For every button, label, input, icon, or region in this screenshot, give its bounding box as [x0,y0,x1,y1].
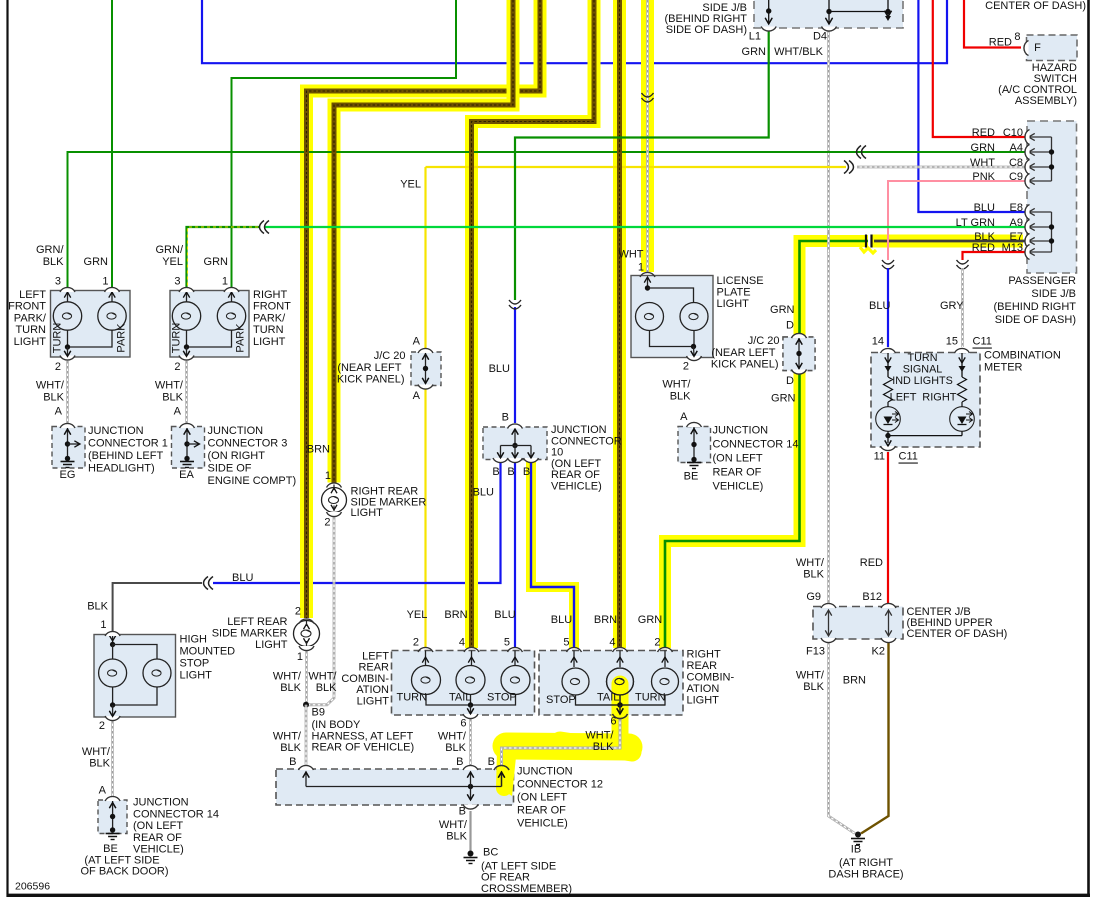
junction connector 3 box [172,427,205,469]
svg-text:WHT: WHT [618,249,643,261]
svg-text:BRN: BRN [594,614,617,626]
svg-text:LIGHT: LIGHT [255,639,288,651]
svg-text:PNK: PNK [972,171,995,183]
splice B9 [303,702,309,708]
svg-text:8: 8 [1014,31,1020,43]
svg-text:VEHICLE): VEHICLE) [517,818,568,830]
re-assert pin arrowheads over cups [64,351,70,357]
wire BLU down to combination meter pin 14 [887,268,889,347]
top J/B internal bus [768,0,770,24]
redraw BRN cores over green/yellow rows at crossings [304,145,309,174]
wire GRY down to combination meter pin 15 [961,268,964,347]
connector break on YEL/WHT row [844,161,849,174]
wire WHT/BLK high mounted stop light pin 2 down [111,721,114,797]
svg-text:A: A [680,411,688,423]
svg-text:(AT LEFT SIDE: (AT LEFT SIDE [481,861,556,873]
svg-text:RED: RED [989,37,1012,49]
junction block: passenger side J/B (right) [1027,121,1077,273]
highlighted wire BRN to right rear side marker pin 1 [334,0,513,483]
svg-text:ASSEMBLY): ASSEMBLY) [1015,95,1077,107]
svg-text:3: 3 [55,276,61,288]
svg-text:IND LIGHTS: IND LIGHTS [892,375,953,387]
svg-text:REAR: REAR [358,662,389,674]
pin connector cups [761,27,776,32]
svg-text:BLK: BLK [803,681,824,693]
svg-text:PLATE: PLATE [717,287,751,299]
right J/B internal arrows group 2 [1051,212,1053,252]
svg-text:GRY: GRY [940,300,964,312]
junction connector 14 (back door) internals + ground BE [112,801,114,829]
svg-text:J/C 20: J/C 20 [748,335,780,347]
page border frame [6,0,8,897]
svg-text:LIGHT: LIGHT [351,507,384,519]
svg-text:COMBIN-: COMBIN- [341,673,389,685]
svg-text:2: 2 [683,361,689,373]
high mounted stop light box [94,635,176,718]
svg-text:STOP: STOP [180,658,210,670]
junction connector 10 box [483,427,547,460]
right front light internals [186,292,188,302]
svg-text:CONNECTOR 14: CONNECTOR 14 [713,439,799,451]
svg-text:WHT/: WHT/ [585,730,614,742]
wire GRN right-front pin1 up/over [232,0,457,287]
svg-text:VEHICLE): VEHICLE) [713,481,764,493]
highlighted wire GRN hazard feed to right rear combination pin 2 (turn) [665,241,868,648]
svg-text:GRN: GRN [84,256,109,268]
svg-text:IB: IB [851,844,861,856]
right front park/turn light box [170,291,249,358]
redraw right rear combination tail elements over highlighter [607,668,634,695]
svg-text:(IN BODY: (IN BODY [312,719,362,731]
svg-text:1: 1 [297,651,303,663]
svg-text:OF REAR: OF REAR [481,872,530,884]
junction connector 12 internals [306,786,502,788]
svg-text:BLU: BLU [232,572,253,584]
wire RED from top to hazard switch F pin 8 [964,0,1021,48]
junction connector 14 (license) internals + ground BE [693,427,695,459]
svg-text:CONNECTOR 12: CONNECTOR 12 [517,779,603,791]
wire RED from top to C10 [933,0,1027,137]
svg-text:WHT/: WHT/ [796,670,825,682]
svg-text:LEFT REAR: LEFT REAR [227,616,287,628]
wire BLU junction connector 10 pin B1 to stop light row [213,462,501,583]
svg-text:10: 10 [551,447,563,459]
svg-text:BLK: BLK [670,391,691,403]
right J/B internal arrows group 1 [1051,137,1053,181]
svg-text:RIGHT: RIGHT [253,289,288,301]
svg-text:BLK: BLK [43,256,64,268]
ground BC [469,811,471,851]
wire WHT/BLK front lights pin2 to junction connector 3 [185,361,188,423]
svg-text:GRN: GRN [770,304,795,316]
svg-text:2: 2 [99,720,105,732]
svg-text:WHT/: WHT/ [662,379,691,391]
svg-text:D4: D4 [813,31,827,43]
wire BLU main horizontal bus y=63 [202,0,947,63]
combination meter box [871,353,980,448]
junction connector 1 box [52,427,85,469]
svg-text:A: A [99,785,107,797]
svg-text:PARK/: PARK/ [14,312,47,324]
svg-text:1: 1 [222,276,228,288]
svg-text:KICK PANEL): KICK PANEL) [337,374,405,386]
svg-text:HIGH: HIGH [180,634,208,646]
svg-text:C8: C8 [1009,157,1023,169]
svg-text:GRN/: GRN/ [156,244,184,256]
hazard switch connector F [1027,35,1078,61]
svg-text:1: 1 [102,276,108,288]
svg-text:206596: 206596 [15,881,50,893]
svg-text:LEFT: LEFT [362,651,389,663]
svg-text:RED: RED [972,127,995,139]
wire BRN center J/B K2 to ground IB [861,642,889,834]
svg-text:TAIL: TAIL [597,692,619,704]
svg-text:REAR OF: REAR OF [133,832,182,844]
svg-text:EG: EG [60,469,76,481]
svg-text:14: 14 [872,336,884,348]
svg-text:2: 2 [55,361,61,373]
svg-text:4: 4 [459,637,465,649]
svg-text:WHT/: WHT/ [439,819,468,831]
svg-text:A: A [413,390,421,402]
left front light internals [67,292,69,302]
svg-text:B: B [507,466,514,478]
svg-text:(ON LEFT: (ON LEFT [517,792,567,804]
svg-text:B12: B12 [862,591,882,603]
svg-text:RIGHT: RIGHT [687,649,722,661]
svg-text:GRN: GRN [204,256,229,268]
svg-text:D: D [786,375,794,387]
svg-text:PARK: PARK [235,323,247,353]
wire WHT/BLK splice B9 to junction connector 12 pin B1 [305,705,308,765]
svg-text:STOP: STOP [546,694,576,706]
svg-text:5: 5 [504,637,510,649]
svg-text:TURN: TURN [52,323,64,354]
svg-text:B: B [488,756,495,768]
svg-text:LICENSE: LICENSE [717,275,764,287]
svg-text:GRN: GRN [971,142,996,154]
redraw WHT core over rows at crossing [646,145,649,174]
svg-text:VEHICLE): VEHICLE) [551,481,602,493]
svg-text:OF BACK DOOR): OF BACK DOOR) [80,866,168,878]
left rear combination light box [392,651,535,716]
wire BLK E7 row (highlighted) [872,235,1023,248]
svg-text:SIDE OF: SIDE OF [208,463,252,475]
svg-text:G9: G9 [806,591,821,603]
combination meter left indicator branch [887,352,889,377]
svg-text:KICK PANEL): KICK PANEL) [711,359,779,371]
svg-text:EA: EA [179,469,194,481]
wire WHT/BLK front lights pin2 to junction connector 1 [66,361,69,423]
svg-text:JUNCTION: JUNCTION [88,425,144,437]
svg-text:6: 6 [610,716,616,728]
svg-text:M13: M13 [1002,242,1023,254]
svg-text:JUNCTION: JUNCTION [517,766,573,778]
J/C 20 box (near left kick panel) #2 [783,337,815,371]
svg-text:BLK: BLK [316,682,337,694]
svg-text:BLK: BLK [280,682,301,694]
junction connector 14 box (license) [678,427,711,463]
svg-text:F: F [1034,42,1041,54]
wire PNK C9 row and down [888,181,1027,260]
J/C 20 #2 internals [798,338,800,369]
svg-text:HARNESS, AT LEFT: HARNESS, AT LEFT [312,730,414,742]
license plate light box [631,276,713,358]
svg-text:LT GRN: LT GRN [956,217,995,229]
redraw PNK over E7 highlight [887,232,889,252]
svg-text:2: 2 [654,637,660,649]
svg-text:WHT/: WHT/ [796,557,825,569]
svg-text:GRN: GRN [742,46,767,58]
svg-text:BRN: BRN [444,609,467,621]
svg-text:1: 1 [638,262,644,274]
svg-text:J/C 20: J/C 20 [374,350,406,362]
svg-text:B: B [492,466,499,478]
svg-text:SIDE MARKER: SIDE MARKER [212,628,288,640]
svg-text:LIGHT: LIGHT [253,336,286,348]
svg-text:BLU: BLU [869,300,890,312]
ground IB [855,832,861,838]
wire BLU down to junction connector 10 pin B [514,307,516,423]
svg-text:4: 4 [609,637,615,649]
svg-text:BLK: BLK [803,569,824,581]
svg-text:CONNECTOR 1: CONNECTOR 1 [88,438,168,450]
wire WHT segment to C8 [857,166,1027,169]
svg-text:MOUNTED: MOUNTED [180,646,236,658]
highlighter blob over right rear combination tail circuit [612,684,629,740]
svg-text:1: 1 [100,619,106,631]
svg-text:SIDE OF DASH): SIDE OF DASH) [995,314,1076,326]
svg-text:GRN: GRN [638,614,663,626]
svg-text:JUNCTION: JUNCTION [551,424,607,436]
svg-text:CONNECTOR 14: CONNECTOR 14 [133,808,219,820]
junction connector 3 internals + ground EA [186,428,188,458]
svg-text:BE: BE [684,471,699,483]
svg-text:WHT/: WHT/ [82,746,111,758]
wire WHT/BLK right rear combination pin6 to junction connector 12 pin B3 [502,719,621,765]
svg-text:PASSENGER: PASSENGER [1008,275,1076,287]
wire BLU junction connector 10 pin B2 to left rear combination pin 5 [514,462,516,648]
connector break on A4 GRN row [857,146,862,159]
svg-text:BLK: BLK [162,392,183,404]
svg-text:WHT/: WHT/ [273,731,302,743]
svg-text:BLU: BLU [473,487,494,499]
svg-text:WHT: WHT [970,157,995,169]
wire LT GRN A9 row [265,226,1027,228]
wire RED combination meter pin 11 to center J/B B12 [887,452,889,603]
svg-text:SIDE J/B: SIDE J/B [1031,288,1076,300]
svg-text:(NEAR LEFT: (NEAR LEFT [337,362,401,374]
svg-text:WHT/: WHT/ [438,731,467,743]
svg-text:REAR OF: REAR OF [713,467,762,479]
svg-text:COMBINATION: COMBINATION [984,350,1061,362]
wire WHT/BLK D4 from top J/B down to center J/B G9 [827,30,830,603]
highlighted wire BLU junction connector 10 pin B3 to right rear combination pin 5 [531,462,574,648]
svg-text:B: B [523,466,530,478]
svg-text:LIGHT: LIGHT [357,695,390,707]
svg-text:TURN: TURN [397,692,428,704]
wire RED M13 row and down [963,252,1028,260]
junction connector 14 box (back door) [98,800,127,834]
svg-text:HEADLIGHT): HEADLIGHT) [88,463,155,475]
junction connector 1 internals + ground EG [67,428,69,458]
svg-text:GRN/: GRN/ [36,244,64,256]
svg-text:2: 2 [413,637,419,649]
svg-text:TURN: TURN [635,692,666,704]
svg-text:2: 2 [174,361,180,373]
svg-text:15: 15 [946,336,958,348]
svg-text:(ON LEFT: (ON LEFT [713,453,763,465]
wire YEL row to C8 [426,166,847,168]
svg-text:CONNECTOR 3: CONNECTOR 3 [208,438,288,450]
svg-text:1: 1 [325,470,331,482]
svg-text:E8: E8 [1010,202,1023,214]
highlighted wire BRN to left rear side marker pin 2 [307,0,541,618]
svg-text:B: B [502,412,509,424]
junction block: passenger side J/B (top) [754,0,903,28]
svg-text:CENTER OF DASH): CENTER OF DASH) [985,0,1086,12]
svg-text:TAIL: TAIL [449,692,471,704]
license plate light internals [647,277,649,288]
svg-text:C9: C9 [1009,171,1023,183]
svg-text:WHT/: WHT/ [36,380,65,392]
svg-text:B: B [289,756,296,768]
svg-text:LIGHT: LIGHT [717,298,750,310]
svg-text:(ON LEFT: (ON LEFT [133,820,183,832]
svg-text:REAR OF VEHICLE): REAR OF VEHICLE) [312,742,415,754]
svg-text:TURN: TURN [15,324,46,336]
svg-text:ENGINE COMPT): ENGINE COMPT) [208,475,297,487]
connector break on WHT license wire [642,93,654,97]
svg-text:FRONT: FRONT [8,301,46,313]
svg-text:BRN: BRN [307,444,330,456]
junction connector 10 internals [514,428,516,446]
svg-text:SIGNAL: SIGNAL [903,364,943,376]
left front park/turn light box [51,291,131,358]
svg-text:(ON RIGHT: (ON RIGHT [208,450,266,462]
svg-text:A: A [55,406,63,418]
svg-text:A: A [174,406,182,418]
connector break on GRN/YEL row [260,221,265,234]
left rear combination light internals [425,651,427,666]
svg-text:LIGHT: LIGHT [14,336,47,348]
right rear side marker light bulb [322,488,347,513]
svg-text:SIDE OF DASH): SIDE OF DASH) [666,24,747,36]
svg-text:YEL: YEL [162,256,183,268]
svg-text:(AT RIGHT: (AT RIGHT [839,857,893,869]
svg-text:JUNCTION: JUNCTION [713,425,769,437]
svg-text:L1: L1 [749,31,761,43]
svg-text:D: D [786,320,794,332]
svg-text:BE: BE [103,843,118,855]
svg-text:WHT/: WHT/ [273,671,302,683]
svg-text:BLK: BLK [446,831,467,843]
svg-text:A9: A9 [1010,217,1023,229]
svg-text:JUNCTION: JUNCTION [208,425,264,437]
svg-text:ATION: ATION [687,683,720,695]
wire GRN A4 row to left-front pin3 [68,152,1028,287]
svg-text:C10: C10 [1003,127,1023,139]
wire WHT/BLK left marker pin1 to splice B9 [305,651,308,705]
connector break PNK/BLU [882,260,894,264]
svg-text:BLU: BLU [494,609,515,621]
svg-text:TURN: TURN [171,323,183,354]
svg-text:3: 3 [174,276,180,288]
svg-text:STOP: STOP [487,692,517,704]
svg-text:11: 11 [874,451,885,463]
svg-text:BLU: BLU [974,202,995,214]
svg-text:BLU: BLU [489,363,510,375]
svg-text:2: 2 [295,606,301,618]
svg-text:WHT/: WHT/ [155,380,184,392]
svg-text:FRONT: FRONT [253,301,291,313]
svg-text:F13: F13 [806,646,825,658]
connector break RED/GRY [957,260,969,264]
svg-text:CONNECTOR: CONNECTOR [551,435,622,447]
high mounted stop light internals [112,635,114,645]
svg-text:5: 5 [563,637,569,649]
svg-text:LIGHT: LIGHT [180,670,213,682]
combination meter bottom bus [888,435,962,437]
svg-text:BLK: BLK [89,758,110,770]
svg-text:RIGHT: RIGHT [922,392,957,404]
svg-text:TURN: TURN [253,324,284,336]
svg-text:BLK: BLK [87,601,108,613]
wire YEL vertical to left rear combination pin 2 [424,167,426,348]
svg-text:LIGHT: LIGHT [687,695,720,707]
svg-text:COMBIN-: COMBIN- [687,672,735,684]
highlighted wire WHT to license plate light pin 1 [641,0,654,272]
connector break on E7 row [865,235,867,248]
wire WHT/BLK left rear combination pin6 to junction connector 12 [469,719,472,765]
svg-text:(ON LEFT: (ON LEFT [551,458,601,470]
svg-text:A: A [413,336,421,348]
svg-text:K2: K2 [872,646,885,658]
svg-text:6: 6 [460,718,466,730]
J/C 20 #1 internals [425,353,427,384]
svg-text:RED: RED [972,242,995,254]
connector break BLK/BLU [204,577,209,590]
svg-text:TURN: TURN [908,352,938,364]
svg-text:YEL: YEL [407,609,428,621]
svg-text:BLK: BLK [43,392,64,404]
center J/B box [813,607,903,640]
svg-text:LEFT: LEFT [890,392,917,404]
svg-text:2: 2 [324,517,330,529]
highlighted wire BRN to left rear combination pin 4 (tail) [472,0,595,648]
left rear side marker light bulb [294,621,320,647]
svg-text:B: B [459,806,466,818]
svg-text:BLU: BLU [551,614,572,626]
wire GRN/YEL segment to right-front pin3 [187,227,260,287]
svg-text:REAR OF: REAR OF [517,805,566,817]
J/C 20 box (near left kick panel) #1 [411,352,441,386]
svg-text:REAR OF: REAR OF [551,469,600,481]
right rear combination light box [539,651,683,716]
svg-text:ATION: ATION [356,684,389,696]
center J/B internal arrows [828,611,830,635]
svg-text:BC: BC [483,847,498,859]
wire BLK high-mounted stop light row [113,583,202,632]
svg-text:C11: C11 [899,451,918,463]
svg-text:(BEHIND LEFT: (BEHIND LEFT [88,450,163,462]
svg-text:WHT/: WHT/ [308,671,337,683]
right rear combination light internals [573,651,575,668]
svg-text:BLK: BLK [280,742,301,754]
svg-text:GRN: GRN [771,393,796,405]
svg-text:RED: RED [860,557,883,569]
svg-text:B9: B9 [312,707,325,719]
